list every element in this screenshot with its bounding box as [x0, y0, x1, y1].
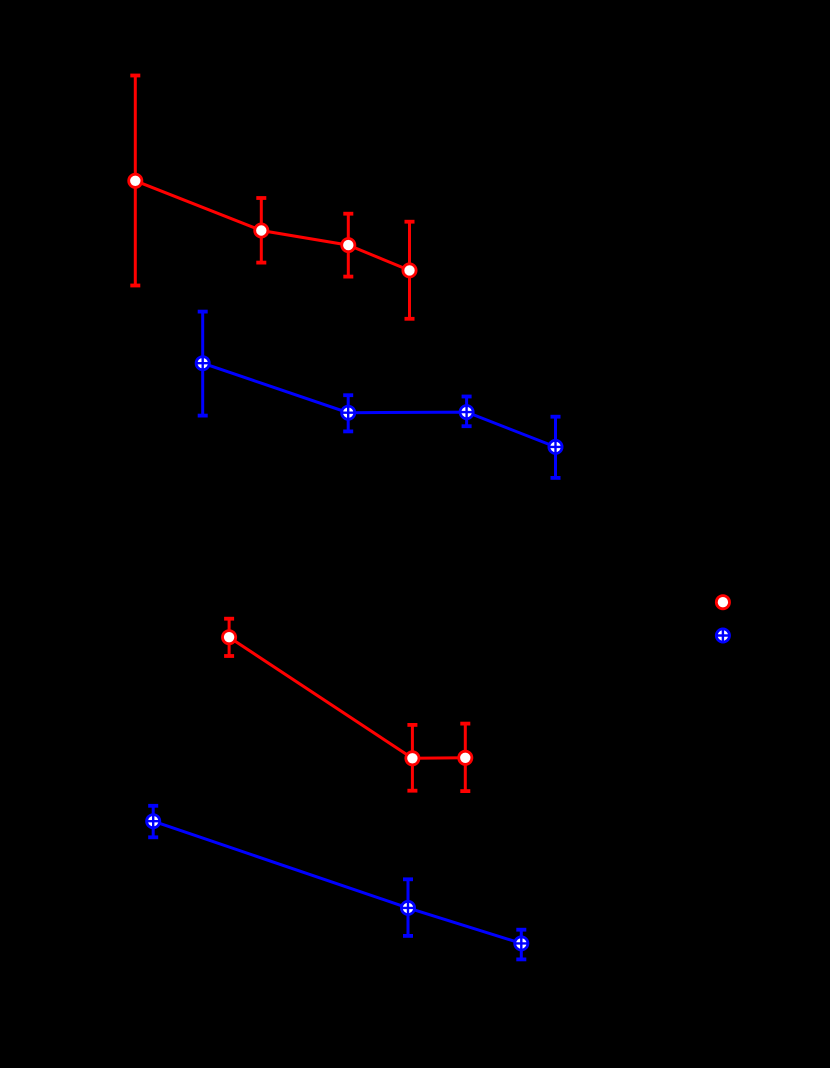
top panel blue marker 3	[460, 405, 474, 419]
top panel blue series error bar 3	[462, 397, 472, 427]
bottom panel red marker 3	[459, 751, 472, 764]
bottom panel red marker 2	[406, 752, 419, 765]
top panel red series error bar 1	[130, 76, 140, 286]
top panel red series error bar 3	[343, 214, 353, 277]
bottom panel blue series line	[153, 821, 521, 943]
top panel red marker 1	[129, 174, 142, 187]
bottom panel red series line	[229, 637, 465, 758]
top panel red series error bar 4	[405, 222, 415, 319]
top panel red marker 3	[342, 239, 355, 252]
top panel blue series error bar 4	[551, 417, 561, 478]
top panel blue series error bar 1	[198, 312, 208, 416]
bottom panel blue marker 2	[401, 901, 415, 915]
bottom panel red series error bar 3	[460, 724, 470, 792]
bottom panel red series error bar 2	[407, 725, 417, 791]
bottom panel blue series error bar 2	[403, 879, 413, 936]
bottom panel blue marker 3	[514, 936, 528, 950]
top panel blue series error bar 2	[343, 395, 353, 431]
bottom panel blue marker 1	[146, 814, 160, 828]
bottom panel blue series error bar 3	[516, 930, 526, 960]
top panel red series line	[135, 181, 409, 271]
top panel blue marker 4	[549, 440, 563, 454]
legend blue marker	[716, 629, 730, 643]
legend red marker	[716, 596, 729, 609]
top panel blue series line	[203, 363, 556, 447]
bottom panel red series error bar 1	[224, 619, 234, 656]
top panel red marker 4	[403, 264, 416, 277]
bottom panel red marker 1	[223, 631, 236, 644]
top panel red series error bar 2	[256, 198, 266, 263]
top panel red marker 2	[255, 224, 268, 237]
top panel blue marker 1	[196, 356, 210, 370]
bottom panel blue series error bar 1	[148, 806, 158, 838]
top panel blue marker 2	[341, 406, 355, 420]
